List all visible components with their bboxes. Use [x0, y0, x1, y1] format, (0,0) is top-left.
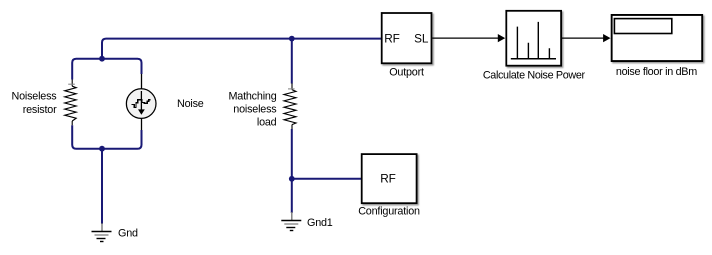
svg-text:RF: RF [380, 172, 396, 186]
ground Gnd symbol [92, 223, 112, 242]
node junction on top rail to load branch [289, 36, 295, 42]
wire parallel pair bottom rail [72, 125, 141, 149]
noise current source leads [141, 74, 143, 130]
Calculate Noise Power block U2 [506, 11, 561, 66]
svg-text:Mathching: Mathching [228, 90, 276, 102]
wire Calculate Noise Power to display [562, 37, 604, 39]
arrowhead into Calculate Noise Power [498, 34, 505, 42]
display inner value rect [614, 19, 671, 34]
svg-text:Configuration: Configuration [358, 205, 420, 217]
noise source waveform [132, 100, 151, 108]
noise source arrow [140, 91, 142, 110]
svg-text:RF: RF [384, 31, 400, 45]
node junction to RF Configuration [289, 176, 295, 182]
svg-text:Gnd1: Gnd1 [307, 217, 333, 229]
ground Gnd1 symbol [281, 212, 301, 231]
spectrum icon baseline [511, 58, 556, 60]
svg-text:Gnd: Gnd [118, 227, 138, 239]
noise current source circle [126, 89, 156, 119]
svg-text:resistor: resistor [23, 104, 57, 116]
svg-text:noise floor in dBm: noise floor in dBm [616, 66, 697, 78]
wire bottom junction to Gnd [101, 149, 103, 224]
Outport block U1 [382, 13, 432, 63]
svg-text:Outport: Outport [389, 67, 424, 79]
svg-text:noiseless: noiseless [233, 103, 277, 115]
svg-text:Calculate Noise Power: Calculate Noise Power [483, 69, 586, 81]
RF Configuration block U3 [362, 154, 417, 203]
wire junction to RF Configuration block [292, 178, 362, 180]
wire load branch upper (junction to load resistor) [291, 39, 293, 84]
svg-text:load: load [257, 116, 277, 128]
wire Outport SL to Calculate Noise Power [432, 37, 498, 39]
resistor matching load [284, 83, 296, 129]
wire top rail from parallel pair to Outport RF [102, 39, 382, 59]
svg-text:SL: SL [414, 31, 429, 45]
arrowhead into display [603, 34, 610, 42]
display block noise floor in dBm [612, 15, 703, 61]
wire load branch lower (resistor to Gnd1) [291, 129, 293, 213]
svg-text:Noiseless: Noiseless [11, 91, 57, 103]
svg-text:Noise: Noise [177, 98, 204, 110]
node junction top of parallel pair [99, 56, 105, 62]
node junction bottom of parallel pair [99, 146, 105, 152]
spectrum icon bars [517, 22, 549, 59]
wire parallel pair top rail [72, 59, 141, 80]
resistor R noiseless [65, 80, 77, 126]
